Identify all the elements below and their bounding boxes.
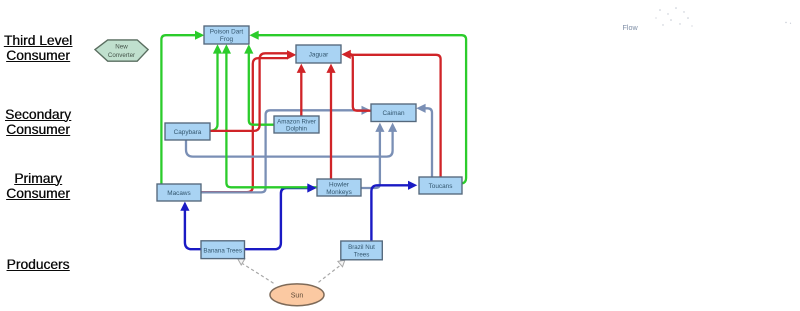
box Brazil Nut Trees	[341, 241, 383, 260]
wire steel Macaws to Caiman	[201, 110, 363, 192]
wire green Capybara to Poison Dart Frog	[211, 53, 218, 131]
wire green Toucans to Poison Dart Frog	[258, 35, 466, 183]
arrowhead red into Jaguar right	[342, 50, 351, 59]
arrowhead steel into Caiman right	[416, 104, 425, 113]
hexagon New Converter	[95, 40, 148, 61]
label Primary Consumer	[2, 171, 74, 202]
box Caiman	[371, 104, 416, 122]
box Poison Dart Frog	[204, 26, 249, 44]
wire blue Brazil Nut Trees to Toucans	[371, 185, 408, 241]
arrowhead green frog bottom 1	[213, 44, 222, 53]
wire steel Toucans to Caiman	[425, 108, 432, 177]
wire red Macaws to Jaguar (under steel)	[201, 58, 288, 192]
arrowhead gray hollow at Banana Trees	[238, 259, 245, 265]
arrowhead red into Jaguar left	[287, 50, 296, 59]
label Secondary Consumer	[2, 107, 74, 138]
wire blue Banana Trees to Howler Monkeys	[245, 188, 309, 249]
wire red Capybara to Jaguar	[211, 53, 289, 131]
box Banana Trees	[201, 241, 245, 259]
svg-text:Caiman: Caiman	[382, 110, 404, 117]
dashed Sun to Banana Trees	[243, 264, 274, 284]
box Amazon River Dolphin	[274, 116, 319, 133]
wire red Caiman to Jaguar	[348, 54, 371, 111]
label Producers	[2, 257, 74, 272]
box Toucans	[419, 177, 462, 194]
svg-text:Sun: Sun	[291, 293, 304, 300]
arrowhead blue into Toucans left	[408, 181, 417, 190]
wire green Amazon River Dolphin to Poison Dart Frog	[249, 53, 274, 125]
arrowhead red into Jaguar bottom 1	[297, 64, 306, 73]
arrowhead green into frog left	[195, 31, 204, 40]
svg-text:Howler: Howler	[329, 181, 350, 188]
wire red Toucans to Jaguar	[350, 55, 441, 177]
wire red Amazon River Dolphin to Jaguar	[300, 73, 302, 117]
wire green Howler Monkeys to Poison Dart Frog	[226, 53, 317, 187]
wire steel Capybara to Caiman	[186, 132, 393, 157]
svg-text:Toucans: Toucans	[429, 183, 453, 190]
box Howler Monkeys	[317, 179, 361, 196]
svg-text:Poison Dart: Poison Dart	[210, 29, 244, 36]
arrowhead steel into Caiman left	[362, 106, 371, 115]
box Jaguar	[296, 45, 341, 63]
svg-text:Dolphin: Dolphin	[286, 126, 308, 133]
arrowhead red into Jaguar bottom 2	[326, 64, 335, 73]
arrowhead green into frog right	[249, 31, 258, 40]
label Third Level Consumer	[2, 33, 74, 64]
arrowhead steel into Caiman bottom right	[388, 123, 397, 132]
svg-text:Capybara: Capybara	[174, 129, 202, 136]
box Capybara	[165, 123, 210, 140]
svg-text:Monkeys: Monkeys	[326, 189, 352, 196]
wire blue Banana Trees to Macaws	[185, 211, 201, 250]
svg-text:Frog: Frog	[220, 36, 234, 43]
faint scribble marks top right	[655, 7, 791, 26]
ellipse Sun	[270, 284, 324, 306]
arrowhead steel into Caiman bottom left	[375, 123, 384, 132]
arrowhead blue into Howler Monkeys left	[307, 183, 316, 192]
wire steel Howler Monkeys to Caiman	[361, 132, 380, 189]
arrowhead gray hollow at Brazil Nut Trees	[338, 260, 345, 267]
svg-text:Brazil Nut: Brazil Nut	[348, 244, 375, 251]
svg-text:Converter: Converter	[108, 52, 135, 59]
svg-text:New: New	[115, 44, 128, 51]
svg-text:Banana Trees: Banana Trees	[203, 247, 242, 254]
svg-text:Jaguar: Jaguar	[309, 52, 329, 59]
arrowhead blue into Macaws bottom	[180, 202, 189, 211]
svg-text:Flow: Flow	[623, 23, 639, 32]
svg-text:Trees: Trees	[354, 251, 370, 258]
svg-text:Macaws: Macaws	[167, 190, 190, 197]
wire green Macaws to Poison Dart Frog	[161, 35, 196, 184]
svg-text:Amazon River: Amazon River	[277, 118, 316, 125]
arrowhead green frog bottom 2	[222, 44, 231, 53]
dashed Sun to Brazil Nut Trees	[319, 265, 342, 283]
box Macaws	[157, 184, 201, 201]
arrowhead green frog bottom 3	[244, 44, 253, 53]
wire red Howler Monkeys to Jaguar	[330, 73, 332, 180]
